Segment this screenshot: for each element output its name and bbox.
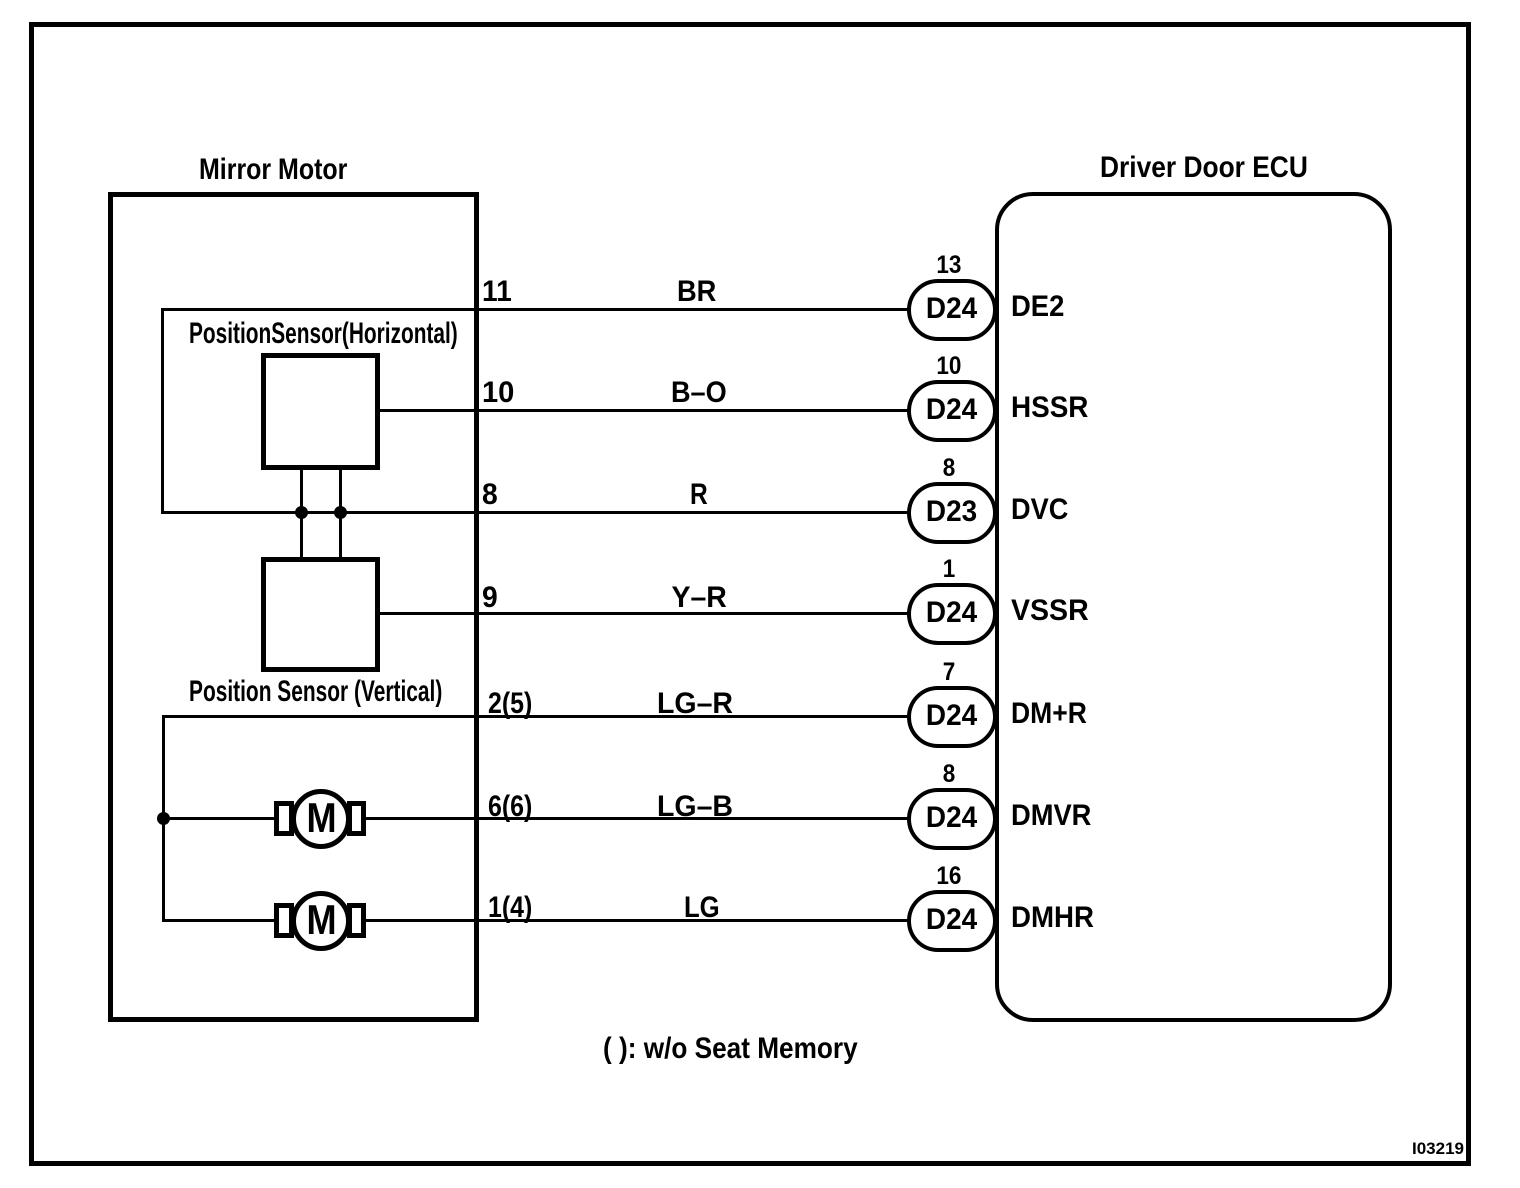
wire label BR [597, 277, 797, 307]
Mirror Motor box [108, 192, 479, 1022]
wire LG pin1(4) row7 [163, 919, 910, 922]
legend w/o Seat Memory [603, 1034, 895, 1064]
motor bus vertical wire [162, 715, 165, 922]
motor M2 terminal left [274, 903, 294, 938]
connector pin 7 [919, 660, 979, 685]
wire label LG-B [595, 792, 795, 822]
Position Sensor (Vertical) label [189, 677, 552, 707]
connector pin 8b [919, 762, 979, 787]
connector pin 16 [919, 864, 979, 889]
pin label 6(6) [488, 792, 541, 822]
signal HSSR [1011, 393, 1094, 423]
motor M2 letter [291, 899, 351, 941]
signal VSSR [1011, 596, 1093, 626]
position sensor vertical box [261, 557, 380, 672]
motor M1 terminal right [347, 801, 366, 836]
junction dot motor bus [157, 812, 170, 825]
position sensor region left edge wire [161, 308, 164, 514]
wire label LG [602, 893, 802, 923]
junction dot left on R wire [295, 506, 308, 519]
Driver Door ECU label [1100, 153, 1337, 183]
connector pin 1 [919, 557, 979, 582]
connector oval D24 row5 [907, 686, 997, 748]
horizontal sensor to vertical sensor link wire right [339, 468, 342, 559]
horizontal sensor to vertical sensor link wire left [300, 468, 303, 559]
motor M1 letter [291, 797, 351, 839]
connector oval D23 row3 [907, 482, 997, 544]
pin label 11 [482, 277, 514, 307]
wire B-O pin10 row2 [378, 409, 910, 412]
figure code I03219 [1412, 1140, 1464, 1157]
motor M1 circle [291, 789, 351, 849]
wire BR pin11 row1 [162, 308, 910, 311]
wire LG-R pin2(5) row5 [163, 715, 910, 718]
wire Y-R pin9 row4 [378, 612, 910, 615]
Driver Door ECU box [995, 192, 1392, 1022]
Mirror Motor label [199, 155, 377, 185]
wire label Y-R [599, 583, 799, 613]
wire LG-B pin6(6) row6 [163, 817, 910, 820]
PositionSensor(Horizontal) label [189, 319, 576, 349]
wire label R [599, 480, 799, 510]
pin label 8 [482, 480, 499, 510]
motor M2 terminal right [347, 903, 366, 938]
connector pin 13 [919, 253, 979, 278]
connector oval D24 row1 [907, 279, 997, 341]
pin label 2(5) [488, 689, 541, 719]
signal DM+R [1011, 699, 1097, 729]
connector pin 10 [919, 354, 979, 379]
signal DVC [1011, 495, 1074, 525]
connector oval D24 row4 [907, 583, 997, 645]
wire label LG-R [595, 689, 795, 719]
motor M1 terminal left [274, 801, 294, 836]
wire label B-O [599, 378, 799, 408]
pin label 9 [482, 583, 499, 613]
connector oval D24 row7 [907, 890, 997, 952]
pin label 1(4) [488, 893, 541, 923]
connector oval D24 row2 [907, 380, 997, 442]
motor M2 circle [291, 891, 351, 951]
signal DMHR [1011, 903, 1101, 933]
connector pin 8 [919, 456, 979, 481]
wire R pin8 row3 [162, 511, 910, 514]
connector oval D24 row6 [907, 788, 997, 850]
position sensor horizontal box [261, 353, 380, 470]
signal DE2 [1011, 292, 1069, 322]
pin label 10 [482, 378, 515, 408]
junction dot right on R wire [334, 506, 347, 519]
signal DMVR [1011, 801, 1099, 831]
